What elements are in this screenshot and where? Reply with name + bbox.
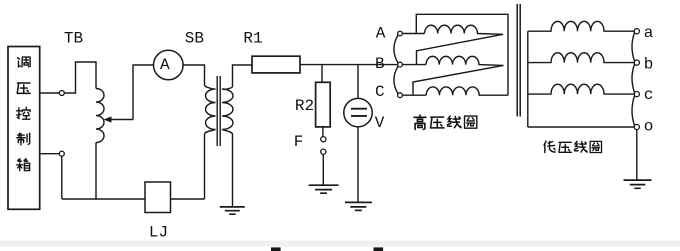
ground under F — [309, 185, 339, 193]
ammeter A — [154, 50, 184, 80]
wire TB winding bottom — [95, 143, 97, 200]
ground under SB secondary — [220, 207, 245, 214]
svg-text:B: B — [375, 55, 385, 73]
svg-text:SB: SB — [185, 30, 204, 48]
node c — [634, 92, 639, 97]
node b — [634, 60, 639, 65]
wire abco bus — [632, 33, 635, 126]
wire control box to top terminal — [40, 92, 60, 94]
svg-text:A: A — [160, 56, 170, 74]
node o — [634, 124, 639, 129]
wire voltmeter to ground — [357, 127, 359, 202]
TB wiper arrow — [104, 116, 134, 122]
wire node o to ground — [636, 130, 638, 180]
wire wiper to ammeter — [133, 65, 153, 120]
transformer core — [517, 4, 520, 117]
wire gap to ground — [322, 154, 324, 185]
ground under node o — [624, 180, 652, 188]
svg-text:R2: R2 — [295, 97, 314, 115]
wire top terminal to TB winding top — [64, 62, 96, 93]
wire R2 to gap F — [322, 127, 324, 137]
LV winding phase a — [528, 21, 634, 31]
wire stub C — [402, 94, 426, 96]
wire stub B — [402, 64, 426, 66]
relay LJ — [145, 182, 171, 213]
label 低压线圈 — [544, 141, 601, 152]
transformer SB secondary winding — [222, 87, 233, 135]
node a — [634, 29, 639, 34]
wire ammeter to SB primary — [183, 65, 204, 85]
svg-text:TB: TB — [64, 30, 83, 48]
wire stub A with riser — [402, 14, 508, 95]
svg-text:C: C — [375, 83, 385, 101]
transformer SB primary winding — [205, 85, 216, 135]
node B terminal — [398, 62, 403, 67]
wire SB secondary top to R1 — [233, 65, 253, 87]
wire SB secondary bottom to ground — [232, 135, 234, 207]
svg-text:F: F — [294, 133, 304, 151]
wire drop to R2 — [321, 65, 323, 83]
node C terminal — [398, 93, 403, 98]
node A terminal — [398, 31, 403, 36]
svg-text:R1: R1 — [243, 30, 262, 48]
wire drop to voltmeter — [357, 65, 359, 99]
wire SB primary bottom to LJ wire — [204, 135, 206, 200]
svg-text:o: o — [644, 117, 654, 135]
svg-text:b: b — [644, 56, 654, 74]
svg-text:A: A — [376, 24, 386, 42]
svg-text:LJ: LJ — [149, 224, 168, 242]
autotransformer TB winding — [96, 89, 104, 143]
wire neutral to node o — [528, 126, 634, 128]
wire LV left bus — [527, 31, 529, 127]
svg-text:c: c — [644, 86, 654, 104]
HV winding phase A — [417, 25, 504, 64]
control box 调压控制箱 — [8, 47, 40, 210]
transformer SB core — [217, 76, 220, 146]
LV winding phase c — [528, 84, 634, 94]
ground under voltmeter — [345, 202, 372, 210]
node bottom terminal — [59, 151, 64, 156]
scan artifact tick 2 — [374, 247, 384, 251]
resistor R1 — [252, 56, 300, 73]
svg-text:V: V — [375, 114, 385, 132]
resistor R2 — [316, 82, 331, 127]
label 高压线圈 — [414, 115, 477, 129]
voltmeter V — [344, 98, 372, 126]
scan artifact tick 1 — [271, 247, 281, 251]
wire LJ to SB primary bottom — [171, 198, 205, 200]
wire ABC shorting bus — [394, 35, 398, 94]
wire R1 to node B — [300, 64, 398, 66]
HV winding phase B — [413, 56, 504, 95]
wire bottom terminal to LJ — [40, 154, 145, 199]
scan artifact gray band bottom — [0, 241, 680, 247]
node top terminal — [59, 91, 64, 96]
LV winding phase b — [528, 53, 634, 63]
svg-text:a: a — [644, 24, 654, 42]
HV winding phase C — [426, 87, 508, 95]
spark gap F terminals — [321, 137, 326, 155]
